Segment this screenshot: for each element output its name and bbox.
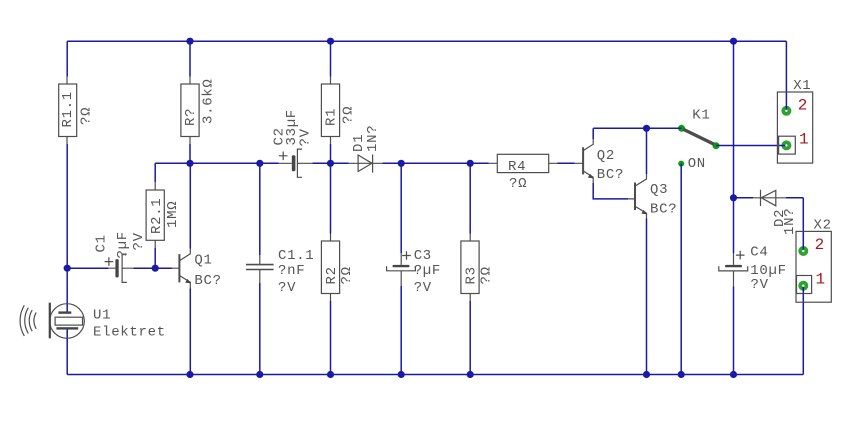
- svg-text:?V: ?V: [414, 280, 432, 296]
- svg-text:?Ω: ?Ω: [339, 266, 355, 284]
- svg-text:K1: K1: [692, 108, 710, 124]
- svg-text:BC?: BC?: [650, 201, 677, 217]
- svg-text:C4: C4: [750, 245, 768, 261]
- svg-text:R?: R?: [183, 108, 199, 126]
- svg-text:?Ω: ?Ω: [79, 107, 95, 125]
- svg-text:2: 2: [815, 236, 825, 254]
- svg-text:X2: X2: [814, 218, 832, 234]
- svg-text:1: 1: [799, 131, 809, 149]
- svg-text:2: 2: [798, 97, 808, 115]
- svg-text:1N?: 1N?: [782, 208, 798, 235]
- svg-text:1: 1: [816, 271, 826, 289]
- svg-text:?µF: ?µF: [115, 231, 131, 258]
- svg-text:Q3: Q3: [650, 182, 668, 198]
- svg-text:R1.1: R1.1: [60, 91, 76, 127]
- svg-text:?Ω: ?Ω: [479, 266, 495, 284]
- svg-text:C1.1: C1.1: [278, 248, 314, 264]
- svg-text:R1: R1: [324, 108, 340, 126]
- svg-text:3.6kΩ: 3.6kΩ: [201, 78, 217, 124]
- svg-text:Elektret: Elektret: [93, 325, 166, 341]
- svg-text:?Ω: ?Ω: [341, 106, 357, 124]
- svg-text:BC?: BC?: [597, 167, 624, 183]
- svg-text:Q2: Q2: [597, 148, 615, 164]
- svg-text:1MΩ: 1MΩ: [165, 201, 181, 228]
- svg-text:?V: ?V: [131, 232, 147, 250]
- svg-text:?V: ?V: [297, 128, 313, 146]
- svg-text:U1: U1: [93, 308, 111, 324]
- svg-text:BC?: BC?: [194, 273, 221, 289]
- svg-text:R2.1: R2.1: [149, 198, 165, 234]
- svg-text:ON: ON: [688, 156, 706, 172]
- svg-text:C1: C1: [94, 234, 110, 252]
- svg-text:?µF: ?µF: [414, 263, 441, 279]
- svg-text:1N?: 1N?: [365, 125, 381, 152]
- svg-text:R3: R3: [464, 266, 480, 284]
- svg-text:C3: C3: [414, 248, 432, 264]
- svg-text:?V: ?V: [278, 280, 296, 296]
- svg-text:R2: R2: [324, 266, 340, 284]
- svg-text:?nF: ?nF: [278, 263, 305, 279]
- svg-text:Q1: Q1: [194, 253, 212, 269]
- svg-text:?V: ?V: [751, 277, 769, 293]
- svg-text:R4: R4: [508, 159, 526, 175]
- svg-text:X1: X1: [793, 78, 811, 94]
- svg-text:?Ω: ?Ω: [509, 176, 527, 192]
